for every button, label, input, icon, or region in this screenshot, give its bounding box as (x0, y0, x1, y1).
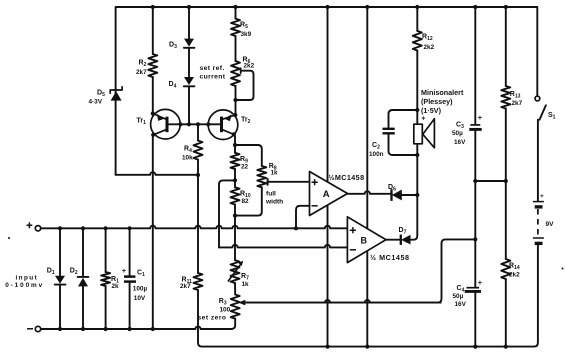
svg-text:+: + (122, 266, 127, 275)
svg-text:100µ: 100µ (133, 286, 148, 293)
diode D3 (188, 7, 190, 39)
svg-text:+: + (478, 278, 483, 287)
resistor R4 (197, 124, 199, 140)
resistor R12 (416, 7, 418, 31)
wire R10 bottom to R8 bottom (235, 187, 262, 215)
svg-text:2k7: 2k7 (512, 100, 523, 107)
svg-text:50µ: 50µ (452, 130, 463, 137)
capacitor C3 (474, 7, 476, 124)
svg-text:full: full (266, 190, 276, 197)
wire speaker bottom to diode node (416, 155, 418, 195)
wire Tr1 collector to negative rail (152, 135, 154, 329)
svg-text:input: input (16, 274, 39, 281)
svg-text:½MC1458: ½MC1458 (329, 173, 365, 182)
potentiometer R8 full width (257, 166, 266, 187)
svg-text:100n: 100n (369, 151, 384, 158)
resistor R10 (234, 180, 236, 187)
diode D4 (184, 77, 194, 85)
svg-text:10k: 10k (182, 155, 193, 162)
svg-text:Minisonalert: Minisonalert (421, 88, 464, 97)
svg-text:set ref.: set ref. (200, 65, 225, 72)
capacitor C1 (129, 228, 131, 275)
resistor R14 (501, 259, 510, 279)
resistor R9 (234, 145, 236, 153)
diode D6 (390, 189, 392, 201)
wire op-amp B output (386, 239, 401, 241)
node - input terminal (35, 326, 40, 331)
svg-text:1k: 1k (271, 170, 279, 177)
wire C3 to R13 interconnect (475, 180, 506, 182)
wire top supply rail (116, 7, 538, 96)
junction dots (151, 5, 155, 9)
svg-text:1k: 1k (242, 281, 250, 288)
potentiometer R3 set zero (231, 295, 240, 319)
svg-text:(Plessey): (Plessey) (421, 97, 453, 106)
svg-text:3k9: 3k9 (241, 31, 252, 38)
svg-text:0-100mv: 0-100mv (5, 282, 44, 289)
wire R3 wiper to C4 node (244, 239, 476, 302)
wire positive input rail (41, 226, 348, 229)
wire R10 bottom to R7 (234, 216, 236, 261)
loudspeaker Minisonalert (416, 110, 418, 155)
wire op-amp A output (348, 191, 392, 194)
svg-text:9V: 9V (546, 221, 555, 228)
potentiometer R7 (231, 260, 240, 283)
resistor R2 (152, 7, 154, 54)
svg-text:current: current (200, 74, 226, 81)
capacitor C2 (389, 110, 418, 128)
diode D2 (82, 228, 84, 276)
wire Tr2 collector to R8 (235, 145, 262, 166)
wire negative input rail (41, 319, 235, 329)
switch S1 (535, 96, 540, 101)
node + input terminal (35, 226, 40, 231)
svg-text:2k2: 2k2 (509, 272, 520, 279)
wire bottom supply rail (198, 246, 538, 347)
svg-text:2k7: 2k7 (180, 283, 191, 290)
diode D7 (400, 235, 402, 245)
wire op-amp A inverting input (296, 206, 310, 229)
potentiometer R6 set ref current (231, 61, 240, 86)
svg-text:+: + (478, 113, 483, 122)
wire R7 to R3 (234, 283, 236, 295)
wire Tr2 collector junction (234, 134, 235, 145)
op-amp B (347, 217, 386, 263)
wire inverting-input row to op-amp B (219, 245, 347, 248)
svg-text:2k7: 2k7 (136, 69, 147, 76)
svg-text:16V: 16V (454, 139, 466, 146)
svg-text:A: A (323, 189, 330, 200)
wire zener branch (115, 88, 117, 175)
transistor Tr1 (151, 109, 181, 139)
svg-text:+: + (421, 116, 425, 123)
svg-text:B: B (361, 236, 368, 246)
svg-text:16V: 16V (455, 301, 467, 308)
op-amp A (310, 172, 348, 216)
svg-text:½ MC1458: ½ MC1458 (370, 253, 410, 262)
resistor R13 (505, 7, 507, 86)
svg-text:width: width (265, 199, 283, 206)
wire switch to battery (537, 120, 539, 201)
resistor R1 (105, 228, 107, 272)
diode D1 (59, 228, 61, 275)
svg-text:set zero: set zero (198, 315, 227, 322)
svg-text:2k2: 2k2 (244, 63, 255, 70)
svg-text:10V: 10V (134, 295, 146, 302)
wire op-amp A supply column (327, 7, 329, 347)
svg-text:2k: 2k (112, 283, 120, 290)
transistor Tr2 (208, 110, 238, 140)
svg-text:(1·5V): (1·5V) (421, 106, 442, 115)
svg-text:100: 100 (220, 307, 231, 314)
zener diode D5 (110, 87, 122, 93)
capacitor C4 (474, 239, 476, 287)
svg-text:50µ: 50µ (453, 293, 464, 300)
svg-text:22: 22 (241, 164, 249, 171)
wire R9-R10 tap to B inverting row (219, 180, 235, 247)
svg-text:4·3V: 4·3V (89, 99, 103, 106)
wire base row Tr1-Tr2 (167, 123, 221, 125)
resistor R5 (235, 7, 237, 19)
resistor R11 (194, 273, 203, 290)
wire op-amp B supply column (366, 7, 368, 347)
svg-text:82: 82 (242, 198, 250, 205)
svg-text:2k2: 2k2 (424, 44, 435, 51)
svg-text:+: + (540, 193, 544, 200)
